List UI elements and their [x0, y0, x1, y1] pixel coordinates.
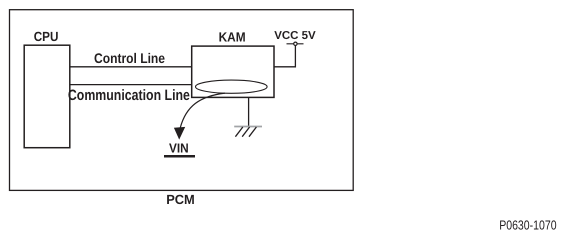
- wire KAM to ground: [248, 97, 250, 126]
- wire Communication Line (CPU to KAM): [70, 84, 192, 86]
- svg-text:Control Line: Control Line: [94, 50, 165, 66]
- node VIN: [164, 141, 195, 157]
- label CPU: [34, 29, 59, 44]
- svg-text:P0630-1070: P0630-1070: [499, 218, 556, 233]
- VCC terminal symbol: [287, 42, 304, 45]
- label Communication Line: [68, 87, 190, 104]
- KAM block: [192, 46, 274, 97]
- PCM enclosure box: [10, 10, 354, 191]
- CPU block: [24, 45, 70, 148]
- svg-text:VCC 5V: VCC 5V: [274, 30, 316, 42]
- arrow from KAM ellipse to VIN node: [174, 93, 225, 140]
- label KAM: [219, 29, 246, 44]
- label PCM: [166, 192, 195, 207]
- svg-text:VIN: VIN: [169, 141, 189, 156]
- svg-text:CPU: CPU: [34, 29, 59, 44]
- ground: [234, 127, 262, 137]
- svg-text:Communication Line: Communication Line: [68, 87, 190, 104]
- label VCC 5V: [274, 30, 316, 42]
- wire Control Line (CPU to KAM): [70, 66, 192, 68]
- KAM internal capacitor ellipse: [196, 80, 268, 93]
- label Control Line: [94, 50, 165, 66]
- label P0630-1070: [499, 218, 556, 233]
- wire VCC terminal to KAM pin: [274, 46, 295, 67]
- svg-text:PCM: PCM: [166, 192, 195, 207]
- svg-text:KAM: KAM: [219, 29, 246, 44]
